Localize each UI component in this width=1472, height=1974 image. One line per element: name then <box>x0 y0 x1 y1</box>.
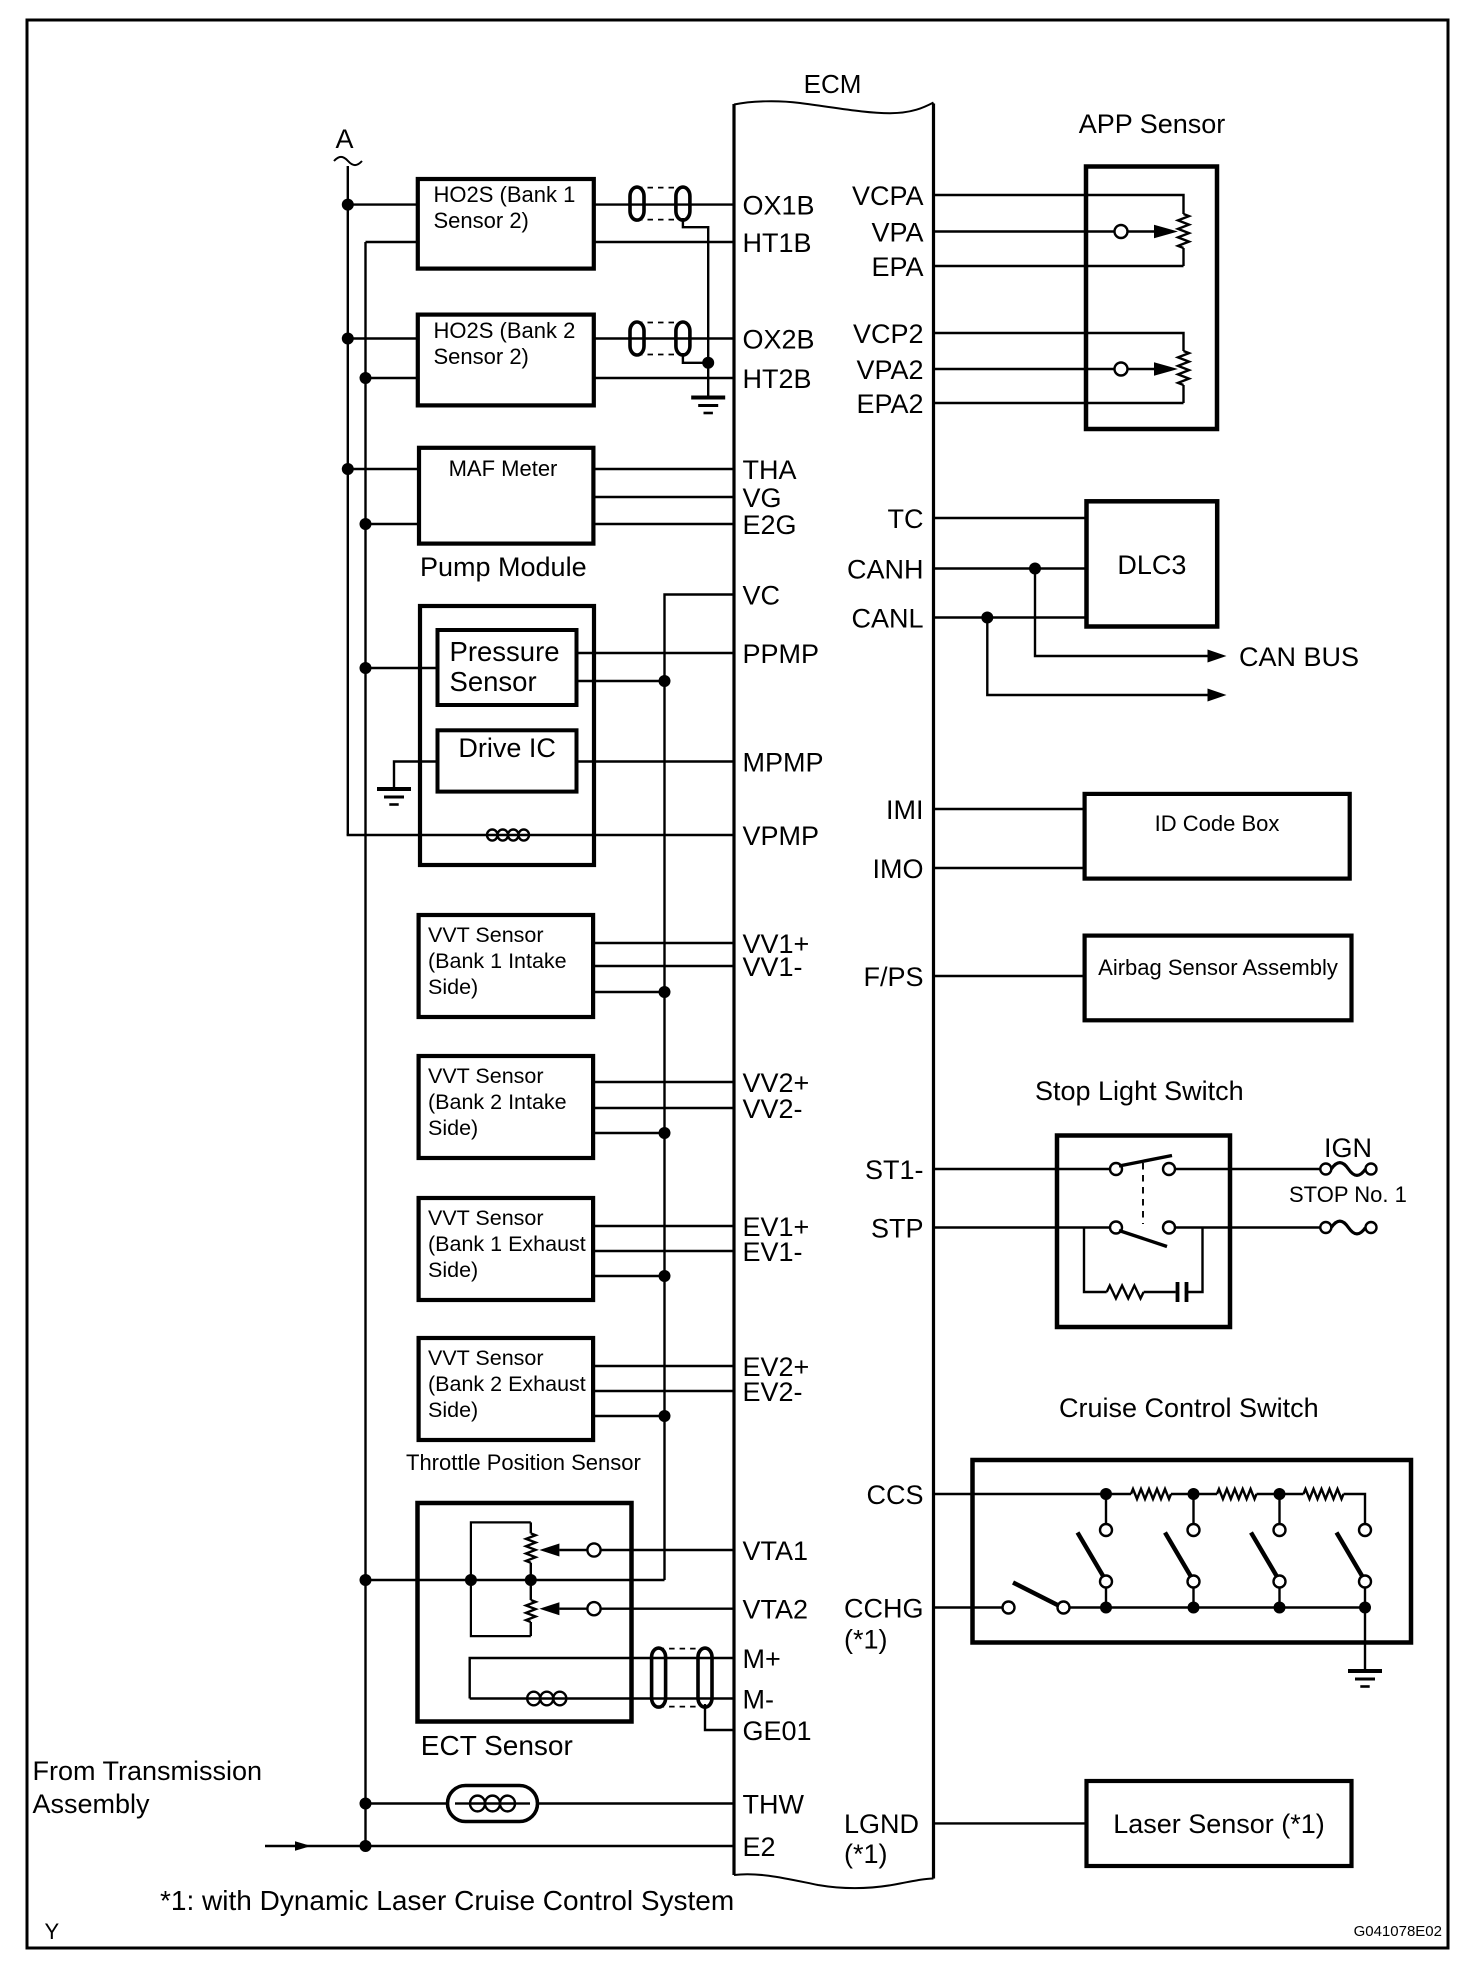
wire CANH <box>934 567 1087 569</box>
svg-text:GE01: GE01 <box>743 1716 812 1746</box>
svg-text:VC: VC <box>743 581 781 611</box>
pin CCHG note <box>844 1625 888 1655</box>
switch cancel blade <box>1013 1583 1060 1607</box>
pin E2 <box>743 1832 776 1862</box>
wire M- throttle motor to ECM <box>470 1697 734 1699</box>
wire E2 bus vertical <box>364 242 366 1846</box>
svg-text:VPMP: VPMP <box>743 821 820 851</box>
footnote *1 <box>160 1885 734 1916</box>
svg-text:(Bank 1 Exhaust: (Bank 1 Exhaust <box>428 1232 586 1256</box>
wire VV1+ to ECM <box>593 942 734 944</box>
svg-text:VV1-: VV1- <box>743 952 803 982</box>
TPS wiper VTA1 <box>539 1543 600 1556</box>
VVT Sensor (Bank 1 Exhaust Side) box <box>419 1198 593 1300</box>
svg-text:VPA: VPA <box>871 218 923 248</box>
pin LGND <box>844 1809 919 1839</box>
pin OX1B <box>743 191 815 221</box>
svg-text:HO2S (Bank 1: HO2S (Bank 1 <box>434 182 576 207</box>
switch cruise 1 upper contact <box>1100 1524 1112 1536</box>
wire E2G from E2 bus <box>366 523 420 525</box>
HO2S (Bank 1 Sensor 2) box <box>418 179 594 269</box>
svg-text:Y: Y <box>45 1919 60 1944</box>
wire ST1 to IGN fuse <box>1175 1168 1320 1170</box>
wire cruise ground drop <box>1364 1608 1366 1672</box>
CAN BUS label <box>1239 642 1359 672</box>
svg-text:MAF Meter: MAF Meter <box>449 456 558 481</box>
wire VVT Sensor (Bank 2 Exhaust Side) shield to VC line <box>593 1415 664 1417</box>
svg-text:Airbag Sensor Assembly: Airbag Sensor Assembly <box>1098 955 1338 980</box>
resistor cruise 3 <box>1280 1489 1366 1524</box>
wire CCHG <box>934 1606 1003 1608</box>
svg-text:Side): Side) <box>428 1398 478 1422</box>
From Transmission Assembly label <box>33 1756 263 1819</box>
wire STP <box>934 1226 1111 1228</box>
wire OX1B HO2S1 to ECM <box>594 203 734 205</box>
arrow CAN bus upper <box>1208 650 1227 663</box>
svg-text:EPA2: EPA2 <box>856 389 923 419</box>
svg-text:ECM: ECM <box>804 69 862 99</box>
svg-text:CAN BUS: CAN BUS <box>1239 642 1359 672</box>
svg-text:HT2B: HT2B <box>743 364 812 394</box>
junction dot E2bus-E2G <box>360 518 372 530</box>
switch cancel contact left <box>1003 1602 1015 1614</box>
fuse IGN <box>1320 1163 1376 1176</box>
pin VPA2 <box>856 355 923 385</box>
junction dot VC line VVT Sensor (Bank 2 Intake Side) <box>659 1127 671 1139</box>
wire ST1- <box>934 1168 1111 1170</box>
pin VC <box>743 581 781 611</box>
Stop Light Switch box <box>1057 1136 1230 1328</box>
wire resistor to capacitor <box>1144 1291 1176 1293</box>
APP Sensor label <box>1079 109 1226 139</box>
wire CAN bus upper <box>1035 569 1208 657</box>
pin MPMP <box>743 748 824 778</box>
pin EV1+ <box>743 1212 810 1242</box>
wire cruise stub top 2 <box>1192 1494 1194 1524</box>
pin IMO <box>873 854 924 884</box>
inductor throttle motor <box>527 1692 566 1706</box>
ECT Sensor label <box>421 1730 573 1761</box>
wire OX2B HO2S2 to ECM <box>594 337 734 339</box>
svg-text:Cruise Control Switch: Cruise Control Switch <box>1059 1393 1319 1423</box>
pin THA <box>743 455 797 485</box>
wire F/PS <box>934 975 1085 977</box>
wire VTA2 to ECM <box>601 1607 734 1609</box>
wire EV1- to ECM <box>593 1250 734 1252</box>
junction dot VC-PS <box>659 675 671 687</box>
junction dot VC line VVT Sensor (Bank 1 Exhaust Side) <box>659 1270 671 1282</box>
Cruise Control Switch label <box>1059 1393 1319 1423</box>
junction dot CANL <box>981 612 993 624</box>
ECM label <box>804 69 862 99</box>
svg-text:E2G: E2G <box>743 510 797 540</box>
wire shield OX1B drop <box>683 218 708 397</box>
junction dot cruise b2 <box>1188 1602 1200 1614</box>
svg-text:F/PS: F/PS <box>863 962 923 992</box>
twisted pair OX2B <box>630 322 690 355</box>
Throttle Position Sensor box <box>418 1503 632 1722</box>
switch cruise 1 lower contact <box>1100 1576 1112 1588</box>
junction dot E2bus-HT2B <box>360 372 372 384</box>
pin VV1+ <box>743 929 810 959</box>
Drive IC box <box>438 730 577 791</box>
wire THW to ECM <box>538 1802 735 1804</box>
svg-text:(Bank 2 Exhaust: (Bank 2 Exhaust <box>428 1372 586 1396</box>
wire VPA2 wiper <box>934 362 1179 376</box>
svg-text:Throttle Position Sensor: Throttle Position Sensor <box>406 1450 641 1475</box>
junction dot CANH <box>1029 563 1041 575</box>
svg-text:CCHG: CCHG <box>844 1594 924 1624</box>
svg-text:HO2S (Bank 2: HO2S (Bank 2 <box>434 318 576 343</box>
junction dot E2bus-E2 <box>360 1840 372 1852</box>
switch cruise 2 blade <box>1165 1533 1192 1578</box>
svg-text:PPMP: PPMP <box>743 639 820 669</box>
STOP No. 1 label <box>1289 1182 1407 1207</box>
wire CANL <box>934 616 1087 618</box>
pin VG <box>743 483 782 513</box>
svg-text:LGND: LGND <box>844 1809 919 1839</box>
pin STP <box>871 1214 924 1244</box>
svg-text:(*1): (*1) <box>844 1625 888 1655</box>
wire OX1B from bus A to HO2S1 <box>348 203 418 205</box>
svg-text:A: A <box>335 124 353 154</box>
junction dot VC line VVT Sensor (Bank 2 Exhaust Side) <box>659 1410 671 1422</box>
pin VTA2 <box>743 1595 809 1625</box>
pin CCS <box>866 1480 923 1510</box>
svg-text:Drive IC: Drive IC <box>458 733 556 763</box>
switch cruise 1 blade <box>1078 1533 1105 1578</box>
junction dot cruise r3 <box>1274 1488 1286 1500</box>
switch cruise 3 upper contact <box>1274 1524 1286 1536</box>
svg-text:IMI: IMI <box>886 795 924 825</box>
pin VPMP <box>743 821 820 851</box>
pin VTA1 <box>743 1536 809 1566</box>
arrow CAN bus lower <box>1208 689 1227 702</box>
pin PPMP <box>743 639 820 669</box>
svg-text:Pressure: Pressure <box>450 636 560 667</box>
Pump Module label <box>420 552 587 582</box>
wire EPA2 <box>934 402 1184 404</box>
junction dot TPS left <box>465 1574 477 1586</box>
wire VVT Sensor (Bank 1 Intake Side) shield to VC line <box>593 991 664 993</box>
fuse STOP No.1 <box>1320 1221 1376 1234</box>
wire VPMP coil to ECM <box>529 834 734 836</box>
svg-text:E2: E2 <box>743 1832 776 1862</box>
pin VV2- <box>743 1094 803 1124</box>
wire A bus vertical <box>347 166 349 835</box>
wire THA from bus A <box>348 468 419 470</box>
wire PPMP pressure sensor to ECM <box>577 652 735 654</box>
Laser Sensor box <box>1087 1781 1352 1866</box>
wire shield OX2B drop <box>683 353 708 363</box>
switch cruise 4 lower contact <box>1359 1576 1371 1588</box>
svg-text:Side): Side) <box>428 1116 478 1140</box>
svg-text:EV2-: EV2- <box>743 1377 803 1407</box>
potentiometer APP1 <box>1178 214 1189 266</box>
wire EPA <box>934 265 1184 267</box>
pin HT1B <box>743 228 812 258</box>
wire capacitor up <box>1187 1228 1203 1293</box>
pin VV1- <box>743 952 803 982</box>
junction dot E2bus-PS <box>360 662 372 674</box>
svg-text:Sensor 2): Sensor 2) <box>434 344 529 369</box>
switch STP contacts <box>1110 1222 1175 1234</box>
svg-text:EV1-: EV1- <box>743 1237 803 1267</box>
svg-text:CANL: CANL <box>851 604 923 634</box>
pin M+ <box>743 1644 781 1674</box>
wire M+ throttle motor to ECM <box>470 1658 734 1699</box>
wire MPMP Drive IC to ECM <box>577 760 735 762</box>
wire THW from E2 bus <box>366 1802 448 1804</box>
svg-text:Pump Module: Pump Module <box>420 552 587 582</box>
svg-text:VTA1: VTA1 <box>743 1536 809 1566</box>
svg-text:Sensor: Sensor <box>450 666 537 697</box>
pin EV2+ <box>743 1352 810 1382</box>
Stop Light Switch label <box>1035 1076 1244 1106</box>
ground HO2S shield <box>691 398 725 414</box>
svg-text:CCS: CCS <box>866 1480 923 1510</box>
switch STP blade <box>1119 1231 1167 1247</box>
svg-text:DLC3: DLC3 <box>1117 550 1186 580</box>
wire IMO <box>934 867 1085 869</box>
junction dot VC line VVT Sensor (Bank 1 Intake Side) <box>659 986 671 998</box>
MAF Meter box <box>419 448 593 544</box>
svg-text:(Bank 2 Intake: (Bank 2 Intake <box>428 1090 567 1114</box>
Airbag Sensor Assembly box <box>1085 936 1352 1021</box>
IGN label <box>1324 1133 1372 1163</box>
wire VG MAF to ECM <box>593 496 734 498</box>
junction dot cruise b1 <box>1100 1602 1112 1614</box>
pin F/PS <box>863 962 923 992</box>
capacitor stop switch <box>1178 1282 1187 1302</box>
wire VC from ECM <box>665 595 735 1581</box>
wire EV2+ to ECM <box>593 1365 734 1367</box>
wire EV1+ to ECM <box>593 1225 734 1227</box>
wire VVT Sensor (Bank 1 Exhaust Side) shield to VC line <box>593 1275 664 1277</box>
TPS wiper VTA2 <box>539 1602 600 1615</box>
resistor cruise 1 <box>1106 1489 1194 1499</box>
pin EPA <box>871 252 923 282</box>
pin CANL <box>851 604 923 634</box>
junction dot A-OX1B <box>342 199 354 211</box>
Pump Module box <box>420 606 594 865</box>
junction dot cruise r2 <box>1188 1488 1200 1500</box>
switch cancel contact right <box>1058 1602 1070 1614</box>
wire cruise stub bottom 1 <box>1105 1588 1107 1608</box>
node A tag <box>334 124 362 165</box>
wire pressure sensor supply from E2 bus <box>366 667 438 669</box>
svg-text:VCPA: VCPA <box>852 181 924 211</box>
twisted pair M+/M- <box>652 1648 712 1707</box>
switch cruise 4 blade <box>1337 1533 1364 1578</box>
wire HT2B to E2 bus <box>366 377 418 379</box>
wire TPS mid from E2 bus to VC line <box>366 1579 665 1581</box>
wire VCPA <box>934 195 1184 214</box>
pin VCP2 <box>853 319 924 349</box>
switch ST1 blade <box>1119 1156 1172 1167</box>
svg-text:STOP No. 1: STOP No. 1 <box>1289 1182 1407 1207</box>
junction dot shield <box>702 357 714 369</box>
svg-text:Stop Light Switch: Stop Light Switch <box>1035 1076 1244 1106</box>
pin M- <box>743 1685 774 1715</box>
svg-text:VVT Sensor: VVT Sensor <box>428 1346 544 1370</box>
wire VCP2 <box>934 333 1184 351</box>
Throttle Position Sensor label <box>406 1450 641 1475</box>
svg-text:M+: M+ <box>743 1644 781 1674</box>
svg-text:CANH: CANH <box>847 555 924 585</box>
wire VV1- to ECM <box>593 965 734 967</box>
wire TC <box>934 517 1087 519</box>
pin ST1- <box>865 1155 924 1185</box>
svg-text:(Bank 1 Intake: (Bank 1 Intake <box>428 949 567 973</box>
svg-text:ECT Sensor: ECT Sensor <box>421 1730 573 1761</box>
svg-text:TC: TC <box>888 504 924 534</box>
svg-text:MPMP: MPMP <box>743 748 824 778</box>
wire VPMP from bus A corner <box>348 834 487 835</box>
pin LGND note <box>844 1839 888 1869</box>
wire cruise stub bottom 4 <box>1364 1588 1366 1608</box>
svg-text:ID Code Box: ID Code Box <box>1155 811 1280 836</box>
wire VVT Sensor (Bank 2 Intake Side) shield to VC line <box>593 1132 664 1134</box>
wire cruise stub bottom 3 <box>1278 1588 1280 1608</box>
svg-text:THA: THA <box>743 455 797 485</box>
wire VV2+ to ECM <box>593 1081 734 1083</box>
wire cruise stub top 3 <box>1278 1494 1280 1524</box>
svg-text:VVT Sensor: VVT Sensor <box>428 1064 544 1088</box>
svg-text:HT1B: HT1B <box>743 228 812 258</box>
Pressure Sensor box <box>438 630 577 705</box>
VVT Sensor (Bank 2 Intake Side) box <box>419 1056 593 1158</box>
pin OX2B <box>743 325 815 355</box>
wire CAN bus lower <box>987 618 1207 696</box>
wire OX2B from bus A to HO2S2 <box>348 337 418 339</box>
pin EPA2 <box>856 389 923 419</box>
svg-text:VVT Sensor: VVT Sensor <box>428 923 544 947</box>
svg-text:VVT Sensor: VVT Sensor <box>428 1206 544 1230</box>
ground cruise switch <box>1348 1671 1382 1687</box>
junction dot A-THA <box>342 463 354 475</box>
junction dot cruise b3 <box>1274 1602 1286 1614</box>
pin TC <box>888 504 924 534</box>
Cruise Control Switch box <box>973 1460 1412 1643</box>
svg-text:ST1-: ST1- <box>865 1155 924 1185</box>
ID Code Box box <box>1085 794 1350 879</box>
potentiometer APP2 <box>1178 351 1189 403</box>
svg-text:VCP2: VCP2 <box>853 319 924 349</box>
TPS potentiometer body <box>471 1522 536 1636</box>
wire VTA1 to ECM <box>601 1549 734 1551</box>
VVT Sensor (Bank 1 Intake Side) box <box>419 915 593 1017</box>
svg-text:STP: STP <box>871 1214 924 1244</box>
wire VV2- to ECM <box>593 1107 734 1109</box>
switch ST1 contacts <box>1110 1163 1175 1175</box>
pin EV2- <box>743 1377 803 1407</box>
junction dot E2bus-TPS <box>360 1574 372 1586</box>
svg-text:Side): Side) <box>428 1258 478 1282</box>
svg-text:THW: THW <box>743 1790 805 1820</box>
svg-text:Sensor 2): Sensor 2) <box>434 208 529 233</box>
switch link dashed <box>1142 1163 1144 1224</box>
pin VPA <box>871 218 923 248</box>
svg-text:VV2-: VV2- <box>743 1094 803 1124</box>
switch cruise 2 lower contact <box>1188 1576 1200 1588</box>
pin CCHG <box>844 1594 924 1624</box>
switch cruise 2 upper contact <box>1188 1524 1200 1536</box>
junction dot cruise r1 <box>1100 1488 1112 1500</box>
inductor pump motor <box>487 829 529 840</box>
wire THA MAF to ECM <box>593 468 734 470</box>
pin VV2+ <box>743 1068 810 1098</box>
wire HT1B HO2S1 to ECM <box>594 241 734 243</box>
wire CCS <box>934 1493 1107 1495</box>
wire GE01 shield <box>705 1704 734 1730</box>
switch cruise 3 lower contact <box>1274 1576 1286 1588</box>
HO2S (Bank 2 Sensor 2) box <box>418 315 594 406</box>
wire Drive IC to ground <box>394 762 438 790</box>
svg-text:OX2B: OX2B <box>743 325 815 355</box>
pin E2G <box>743 510 797 540</box>
pin CANH <box>847 555 924 585</box>
resistor cruise 2 <box>1194 1489 1280 1499</box>
thermistor ECT <box>448 1786 538 1822</box>
wire IMI <box>934 808 1085 810</box>
APP Sensor box <box>1086 167 1217 430</box>
wire E2G MAF to ECM <box>593 523 734 525</box>
page letter Y <box>45 1919 60 1944</box>
ground Drive IC <box>377 789 411 805</box>
svg-text:OX1B: OX1B <box>743 191 815 221</box>
wire E2 from transmission <box>265 1845 734 1847</box>
wire cruise stub top 1 <box>1105 1494 1107 1524</box>
pin VCPA <box>852 181 924 211</box>
wire pressure sensor to VC line <box>577 680 665 682</box>
wire HT1B to E2 bus <box>366 241 418 243</box>
wire HT2B HO2S2 to ECM <box>594 377 734 379</box>
svg-text:IGN: IGN <box>1324 1133 1372 1163</box>
svg-text:M-: M- <box>743 1685 774 1715</box>
svg-text:Assembly: Assembly <box>33 1789 151 1819</box>
wire LGND <box>934 1822 1087 1824</box>
svg-text:VTA2: VTA2 <box>743 1595 809 1625</box>
wire cancel to chain <box>1070 1606 1366 1608</box>
svg-text:VG: VG <box>743 483 782 513</box>
pin IMI <box>886 795 924 825</box>
svg-text:VPA2: VPA2 <box>856 355 923 385</box>
junction dot E2bus-THW <box>360 1798 372 1810</box>
DLC3 box <box>1087 501 1218 626</box>
svg-text:(*1): (*1) <box>844 1839 888 1869</box>
pin THW <box>743 1790 805 1820</box>
svg-text:APP Sensor: APP Sensor <box>1079 109 1226 139</box>
arrow E2 from transmission <box>295 1841 311 1851</box>
VVT Sensor (Bank 2 Exhaust Side) box <box>419 1338 593 1440</box>
ECM box (torn-edge rectangle) <box>734 101 934 1888</box>
junction dot A-OX2B <box>342 333 354 345</box>
resistor stop switch <box>1107 1286 1144 1299</box>
pin EV1- <box>743 1237 803 1267</box>
drawing number G041078E02 <box>1354 1923 1442 1940</box>
junction dot TPS pot <box>525 1574 537 1586</box>
wire EV2- to ECM <box>593 1390 734 1392</box>
wire RC branch left <box>1084 1228 1107 1293</box>
svg-text:G041078E02: G041078E02 <box>1354 1923 1442 1940</box>
twisted pair OX1B <box>630 187 690 220</box>
svg-text:*1: with Dynamic Laser Cruise: *1: with Dynamic Laser Cruise Control Sy… <box>160 1885 734 1916</box>
pin HT2B <box>743 364 812 394</box>
switch cruise 3 blade <box>1251 1533 1278 1578</box>
svg-text:Side): Side) <box>428 975 478 999</box>
svg-text:EPA: EPA <box>871 252 923 282</box>
